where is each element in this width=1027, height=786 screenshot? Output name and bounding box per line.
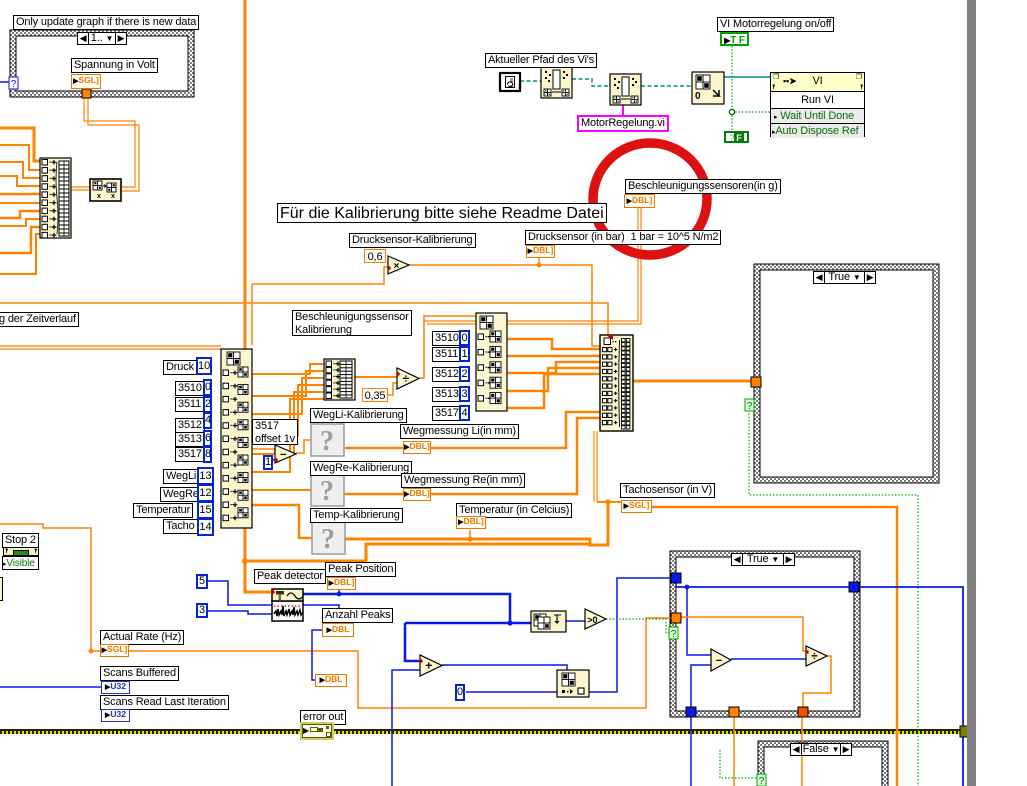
terminal U32 Scans Buffered [101,681,130,694]
wire strip2 to openref [641,85,692,87]
tunnel case3 bottom orange 2 [798,707,808,717]
wire case3 sub input2 [691,665,711,716]
label Tacho [163,519,198,534]
case3 selector [731,553,795,566]
wire 2D array node A to node B line a [71,186,90,188]
add node [420,655,442,676]
wire fan 10 [0,234,40,274]
constant 4 left [203,412,212,429]
svg-text:?: ? [11,79,17,90]
wire const0 to reshape [466,691,557,693]
wire fan 6 [0,202,40,204]
constant 0 right [459,330,470,346]
wire case3 sub out [731,658,806,660]
terminal DBL Beschleunigungssensoren [624,194,655,208]
constant 5 [196,574,208,589]
junction Temperatur DBL [467,536,472,541]
label Aktueller Pfad des Vi's [485,53,597,68]
constant 10 [196,357,212,375]
wire strip1 to strip2 [572,79,610,86]
wire A2-B1 6 [252,399,324,472]
wire Wegmessung Re [344,418,600,494]
wire case3 blue horizontal [676,587,963,786]
wire 2D array node A to node B line b [71,189,90,191]
constant 3 right [459,386,470,402]
subtract node (3517 offset) [275,445,296,463]
wire const1 to subtract [273,459,275,461]
label WegRe-Kalibrierung [310,461,412,476]
multiply node (Drucksensor) [388,256,409,274]
label Scans Buffered [100,666,179,681]
junction circle on dotted wire [729,109,734,114]
strip path node 2 [610,74,641,105]
wire dotted bottom [720,750,758,778]
tunnel case3 right blue [849,582,859,592]
wire Temp out [344,502,608,545]
wire fan 8 [0,219,40,226]
wire multiply input [252,267,389,284]
svg-text:÷: ÷ [811,649,818,663]
wire B3-B2 3 [507,362,600,373]
wire 2D array case1 tunnel to node B line b [88,98,139,191]
terminal DBL Anzahl Peaks [322,623,354,637]
wire peak pos stub [338,589,340,594]
wire fan 9 [0,227,40,253]
wire fan 5 [0,193,40,196]
reshape array node [557,670,589,697]
wire case3 orange bottom1 down [733,716,735,786]
terminal DBL lower [315,674,347,687]
array size node [531,611,566,632]
wire multiply input lower [251,284,253,345]
wire dotted to Wait Until Done [732,111,770,113]
label Scans Read Last Iteration [100,695,229,710]
label Stop 2 [2,533,39,548]
F boolean constant (case selector) [724,131,749,143]
wire magenta vi name [622,105,624,116]
label 3513 left [175,432,205,447]
wire 2D array case1 tunnel to node B line a [84,98,135,187]
wire A2-B1 3 [252,378,324,414]
terminal SGL Spannung [71,74,101,89]
wire subtract out [296,440,311,453]
node A : array-to-cluster (top left) [40,158,71,238]
constant 6 left [203,430,212,447]
label Temperatur left [133,503,193,518]
wire A2 to qmark2 [252,489,311,491]
constant 0,6 [364,249,386,263]
wire const 0,35 to divide [388,383,397,395]
wire into Tacho SGL [597,501,621,503]
tunnel while loop right (olive) [960,726,971,737]
wire case3 orange bottom2 down [801,716,803,786]
constant 14 [197,518,214,536]
label 3517 right [432,406,462,421]
node B : matrix transpose icon [90,179,121,201]
wire fan 2 [0,145,40,170]
svg-text:?: ? [320,426,334,457]
svg-text:?: ? [320,476,334,507]
wire divide1 out to B3 [419,316,476,378]
question node WegRe-Kalibrierung [311,474,344,506]
case structure 2 True (top right) [754,264,939,483]
wire 2D array into node A2 line b [0,348,221,350]
wire fan 7 [0,211,40,218]
label Peak Position [325,562,396,577]
label 3517 offset 1v [252,419,298,445]
junction actual rate [89,649,94,654]
VI path constant icon [500,73,520,91]
svg-text:?: ? [759,776,765,786]
wire B1 out to divide [355,376,397,378]
open VI reference node [692,72,724,104]
label 3510 right [432,331,462,346]
constant 13 [197,467,214,485]
divide node 1 [397,368,419,389]
constant 1 [263,455,273,470]
partial node at left edge [0,577,3,601]
wire A2-B1 2 [252,371,324,396]
wire blue into Scans Buffered U32 [0,686,101,688]
red annotation circle [593,143,707,255]
constant 3 [196,603,208,618]
junction Drucksensor DBL [537,263,542,268]
wire A2 to subtract [252,448,275,450]
terminal U32 Scans Read [101,709,130,722]
greater than zero node [585,609,606,629]
label Drucksensor (in bar) [525,230,721,245]
case structure 4 False (bottom, clipped) [758,741,888,786]
wire case3 sub input1 [687,587,711,655]
svg-text:?: ? [747,401,753,412]
wire stop2 top orange [0,524,100,651]
coercion dot subtract [274,458,278,462]
wire peak out1 [303,594,510,623]
label Druck [163,360,197,375]
terminal SGL Actual Rate [100,644,129,657]
constant 1 right [459,346,470,362]
terminal DBL Temperatur [456,516,486,529]
constant 2 right [459,366,470,382]
case structure 3 True (bottom) [670,551,860,717]
tunnel case3 bottom orange 1 [729,707,739,717]
constant 15 [197,501,214,519]
divide node case3 [806,646,827,666]
svg-text:÷: ÷ [403,372,410,386]
tunnel case3 blue top [671,573,681,583]
wire A2-B1 1 [252,364,324,374]
wire dotted case2 down [749,410,918,786]
label WegLi [163,469,199,484]
wire add input1 [405,623,420,661]
tunnel case3 selector green ? [669,627,678,639]
label Spannung in Volt [71,58,158,73]
wire B3-B2 1 [507,339,600,349]
stop2 Visible property [2,556,39,570]
wire 1D array to Beschleunigung DBL line a [424,208,638,321]
label Fuer die Kalibrierung [277,203,607,223]
wire B2 output to case2 tunnel [633,380,754,383]
terminal DBL Wegmessung Li [403,441,431,454]
case1 selector [77,32,127,45]
svg-text:−: − [716,655,722,667]
wire B3-B2 4 [507,368,600,391]
strip path node 1 [541,67,572,98]
label Temperatur (in Celcius) [456,503,572,518]
tunnel case2 selector green ? [745,399,754,411]
svg-text:0: 0 [695,91,701,102]
node B3 : index array 5 rows [476,313,507,411]
wire 1D array to Beschleunigung DBL line b [427,208,641,324]
constant 8 left [203,446,212,463]
label Zeitverlauf (clipped) [0,312,79,327]
junction case3 blue [685,585,690,590]
coercion dot divide2 [805,650,809,654]
label Anzahl Peaks [322,608,393,623]
constant 4 right [459,405,470,421]
wire case3 divide out [803,656,831,708]
wire add input2 [392,670,420,786]
wire openref to VI node [724,76,770,78]
node A2 : index array (center left) [221,349,252,528]
label Only update graph [13,15,199,30]
tunnel case2 orange [751,377,761,387]
label Peak detector [254,569,326,584]
wire Wegmessung Li [345,412,600,448]
invoke node Run VI [770,72,865,137]
wire 2D array into node A2 line a [0,345,221,347]
wire y623 to arraysize [405,622,531,625]
svg-text:−: − [280,449,286,461]
svg-text:+: + [425,659,432,673]
wire case3 orange in [681,617,806,651]
question node Temp-Kalibrierung [312,522,345,554]
grey divider bar [967,0,976,786]
case structure 1 (Only update graph) [10,30,194,97]
case4 selector [790,743,852,756]
wire dotted gt0 to case3 [606,619,670,633]
constant 12 [197,484,214,502]
wire Zeitverlauf horizontal [0,303,608,335]
while loop border (horizontal) [0,729,964,734]
coercion dot add [419,659,423,663]
wire anzahl chain [312,630,322,680]
tunnel case4 top orange [797,743,807,753]
tunnel case3 orange left [671,613,681,623]
svg-text:x: x [97,193,101,200]
subtract node case3 [711,649,731,671]
wire fan 1 [0,128,40,161]
constant 2 left [203,396,212,413]
constant 0 left [203,379,212,396]
wire B2 bottom to Tacho junction line b [596,431,598,502]
junction on x245 wire [242,558,248,564]
svg-text:×: × [393,261,399,272]
wire A2-B1 5 [252,392,324,454]
constant 0 bottom [455,684,465,701]
junction y623 [507,620,512,625]
wire arraysize to gt0 [566,620,585,622]
label 3512 right [432,367,462,382]
wire path icon to strip1 [520,80,541,82]
tunnel case3 bottom blue [686,707,696,717]
wire dotted TF down [731,46,733,131]
svg-text:x: x [111,193,115,200]
wire B2 bottom to Tacho junction line a [593,431,595,502]
node B2 : bundle array (center) [600,335,633,431]
wire long vertical orange x245 [245,0,272,592]
wire fan 4 [0,176,40,186]
question node WegLi-Kalibrierung [311,424,344,456]
wire blue into case1 selector tunnel [0,81,10,83]
wire multiply output to B2 [409,265,600,346]
label Beschleunigungssensoren [625,179,781,194]
wire branch x245 to y544 [245,544,590,561]
wire Temperatur DBL stub [469,530,471,539]
coercion dot divide1 [396,372,400,376]
coercion dot multiply [387,266,391,270]
wire A2-B1 4 [252,385,324,436]
wire add out to reshape [442,665,567,671]
label Wegmessung Re [401,473,525,488]
label WegRe [160,487,202,502]
wire const3 to peak [208,611,272,614]
TF boolean constant [720,32,749,46]
wire peak out2 [303,605,339,623]
label 3511 left [175,397,204,412]
tunnel case1 bottom orange [82,89,91,98]
constant 0,35 [362,388,388,402]
tunnel case4 selector green ? [757,774,766,786]
label Beschleunigungssensor Kalibrierung [292,310,412,336]
terminal DBL Drucksensor [526,245,555,258]
wire actual rate long [129,618,672,708]
label Temp-Kalibrierung [310,508,403,523]
terminal error out [302,724,332,738]
peak detector node [272,601,303,621]
terminal SGL Tachosensor [621,500,652,513]
wire Drucksensor DBL stub [538,258,540,265]
node B1 : bundle 6 elements [324,359,355,400]
label 3517 left [175,447,205,462]
label 3511 right [432,347,461,362]
stop2 button icon row [3,547,39,556]
label 3513 right [432,387,462,402]
terminal DBL Peak Position [327,577,356,590]
label Wegmessung Li [400,424,519,439]
wire case3 blue bottom down [690,716,692,786]
wire reshape out to case3 [589,578,671,692]
label Actual Rate (Hz) [100,630,184,645]
label 3512 left [175,418,205,433]
label WegLi-Kalibrierung [310,408,407,423]
svg-text:?: ? [671,629,677,640]
label MotorRegelung.vi [577,115,669,132]
terminal DBL Wegmessung Re [403,488,431,501]
label VI Motorregelung on/off [717,17,834,32]
wire fan 3 [0,162,40,178]
label 3510 left [175,381,205,396]
label Drucksensor-Kalibrierung [349,233,476,248]
label Tachosensor (in V) [620,483,715,498]
case2 selector [813,271,876,284]
label error out [300,710,346,725]
wire A2 to qmark3 [252,505,312,538]
svg-text:?: ? [321,524,335,555]
junction peak pos [337,592,342,597]
wire B3-B2 5 [507,374,600,408]
wire const5 to peak [208,581,272,605]
wire B3-B2 2 [507,355,600,358]
wire case3 blue down [675,582,677,587]
junction Tacho [605,499,610,504]
svg-text:>0: >0 [587,615,597,625]
tunnel case1 selector (blue ?) [9,77,18,89]
wire Tacho SGL out [652,507,897,786]
